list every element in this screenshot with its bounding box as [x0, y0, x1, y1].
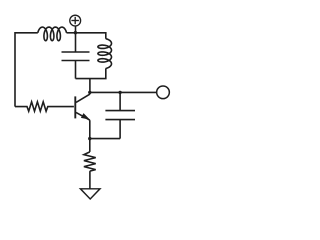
- wire to ground: [89, 171, 91, 189]
- wire left rail: [15, 33, 38, 107]
- inductor L1 (RF choke, horizontal): [38, 27, 67, 41]
- wire collector rail: [90, 91, 157, 93]
- wire tank bottom: [76, 68, 106, 78]
- transistor Q1: [74, 96, 76, 118]
- resistor R2 (emitter): [84, 152, 96, 171]
- wire choke to supply junction: [67, 32, 76, 34]
- node supply junction: [74, 31, 77, 34]
- node emitter junction: [88, 137, 91, 140]
- ground: [80, 189, 100, 199]
- power supply V+: [70, 15, 81, 26]
- transistor emitter arrow: [81, 113, 90, 120]
- wire emitter down: [89, 120, 91, 152]
- inductor L2 (tank, vertical): [98, 39, 112, 69]
- node cap divider top: [118, 91, 121, 94]
- wire top to tank corner: [76, 33, 106, 39]
- wire cap to emitter node: [90, 138, 120, 140]
- capacitor C2: [119, 92, 121, 110]
- wire tank to collector node: [89, 79, 91, 93]
- node collector: [88, 91, 91, 94]
- terminal output: [157, 86, 170, 99]
- resistor R1 (base): [15, 102, 74, 111]
- capacitor C1 (tank): [75, 33, 77, 52]
